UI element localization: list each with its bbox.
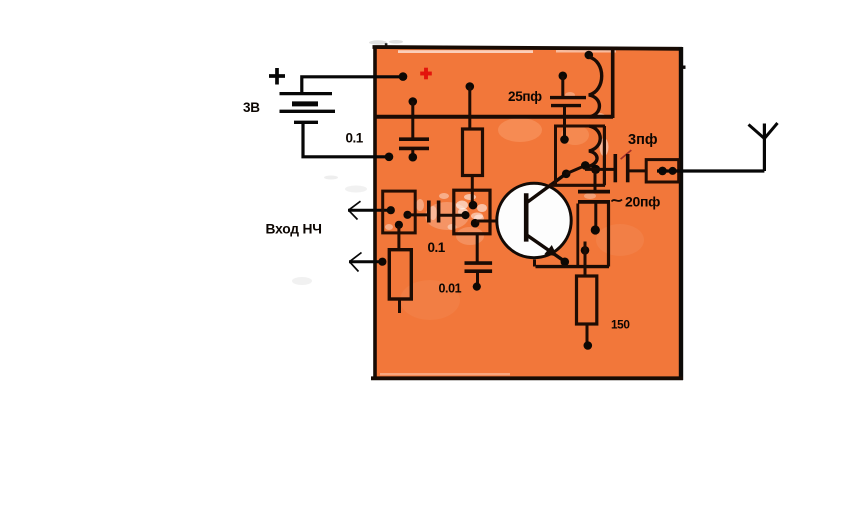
transistor VT1 body xyxy=(497,183,571,257)
battery GB1 positive terminal plus sign xyxy=(269,68,285,85)
node A3 xyxy=(395,221,403,229)
resistor R2 xyxy=(389,226,411,313)
node capacitor C4 bottom xyxy=(560,135,569,144)
inductor L1 lower winding xyxy=(587,126,600,167)
node C1 xyxy=(658,167,667,176)
emitter loop right side xyxy=(607,204,610,267)
resistor R1 xyxy=(463,87,483,206)
junction box A xyxy=(383,191,416,233)
smudge above top-left corner xyxy=(369,40,403,45)
svg-text:Вход НЧ: Вход НЧ xyxy=(266,222,322,237)
panel border bottom xyxy=(371,376,683,380)
node collector xyxy=(562,170,571,179)
wire to antenna xyxy=(657,169,764,172)
wire transistor bottom stub xyxy=(533,260,536,267)
node A2 xyxy=(403,211,411,219)
capacitor C3 0.01 xyxy=(465,234,493,285)
transistor VT1 emitter lead with arrow xyxy=(527,235,564,261)
node inductor L1 top xyxy=(585,51,594,60)
label 20пф with tilde leader xyxy=(612,194,661,210)
node B3 xyxy=(471,219,480,228)
svg-text:0.1: 0.1 xyxy=(346,131,364,146)
node resistor R1 top xyxy=(466,82,475,91)
node resistor R3 bottom xyxy=(584,341,593,350)
node capacitor C1 bottom xyxy=(409,153,418,162)
node battery minus entry xyxy=(385,153,394,162)
capacitor C2 0.1 coupling xyxy=(429,201,465,223)
panel border right xyxy=(679,47,683,380)
wire battery plus to panel xyxy=(302,77,403,94)
capacitor C6 3пф xyxy=(615,154,646,182)
wire box A to capacitor C2 xyxy=(408,213,429,216)
node arrow 2 xyxy=(378,258,386,266)
svg-text:25пф: 25пф xyxy=(508,89,542,104)
junction box B xyxy=(454,190,490,234)
capacitor C5 20пф xyxy=(578,171,610,229)
svg-text:0.01: 0.01 xyxy=(439,282,462,296)
node emitter xyxy=(561,258,570,267)
red plus polarity mark xyxy=(420,68,432,80)
node resistor R3 top xyxy=(581,246,590,255)
node capacitor C5 bottom xyxy=(591,225,600,234)
supply rail wire xyxy=(375,115,613,119)
battery GB1 plates xyxy=(280,94,336,123)
node A1 xyxy=(387,206,395,214)
node C2 xyxy=(669,167,677,175)
junction box C antenna coupling xyxy=(646,160,679,182)
node capacitor C4 top xyxy=(559,72,568,81)
leader line 3пф xyxy=(621,150,632,159)
panel border left xyxy=(373,46,377,379)
tank box xyxy=(549,126,605,185)
antenna W1 xyxy=(749,123,778,171)
node battery plus entry xyxy=(399,72,408,81)
input terminal arrow 1 xyxy=(348,201,390,219)
capacitor C4 25пф xyxy=(550,76,586,139)
node capacitor C3 bottom xyxy=(473,283,481,291)
capacitor C1 0.1 decoupling xyxy=(399,102,429,157)
panel border top xyxy=(373,47,683,49)
gray smudges on white background xyxy=(292,176,367,286)
svg-text:20пф: 20пф xyxy=(625,194,660,210)
inductor L1 upper winding xyxy=(589,57,602,117)
nub on right border xyxy=(681,66,686,69)
node inductor L1 bottom 2 xyxy=(591,165,600,174)
wire inductor to capacitor C6 xyxy=(585,168,614,171)
svg-text:3В: 3В xyxy=(243,100,260,115)
node inductor L1 bottom 1 xyxy=(581,161,590,170)
emitter loop left side xyxy=(576,204,579,266)
input terminal arrow 2 xyxy=(349,253,382,272)
wire top border to rail xyxy=(611,48,615,118)
wire battery minus to panel xyxy=(303,122,388,157)
transistor VT1 collector lead xyxy=(526,174,566,203)
svg-text:150: 150 xyxy=(611,318,630,332)
resistor R3 150 xyxy=(577,242,597,345)
svg-text:0.1: 0.1 xyxy=(428,240,446,255)
svg-text:3пф: 3пф xyxy=(628,132,658,148)
wire collector to inductor xyxy=(566,166,585,174)
node B1 xyxy=(469,201,478,210)
node B2 xyxy=(461,211,469,219)
transistor VT1 base bar xyxy=(524,193,529,241)
circuit board panel xyxy=(374,47,681,378)
node capacitor C1 top xyxy=(409,97,418,106)
wire base lead xyxy=(476,220,526,223)
emitter wire bottom xyxy=(536,265,610,268)
